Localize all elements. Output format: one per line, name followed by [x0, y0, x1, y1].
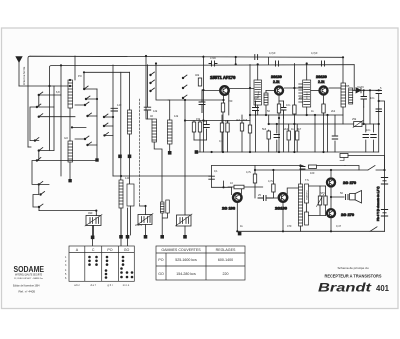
resistor bias out [324, 196, 327, 205]
svg-text:GO: GO [64, 136, 68, 140]
capacitor C-rail 4700 on rail2 [209, 61, 217, 66]
variable capacitor CV3 [176, 214, 193, 226]
svg-text:2G 108: 2G 108 [222, 206, 236, 211]
band switch bottom letters [74, 283, 130, 287]
wire T1 emitter down [223, 96, 225, 104]
wire mid verticals to ground rail [194, 65, 250, 153]
band switch headers [76, 248, 130, 252]
volume control resistor on rail [340, 154, 348, 161]
resistor mid1 [192, 122, 195, 132]
wire long horizontal y210.6 to tuning cap [39, 210, 96, 212]
wire bias stubs [320, 186, 326, 216]
junction dots detector line [363, 89, 380, 91]
wire outer left loop [28, 146, 31, 148]
terminal ground rail left [195, 150, 199, 154]
capacitor det2 [376, 109, 382, 112]
svg-text:10n: 10n [370, 96, 375, 100]
wire audio box left [211, 166, 213, 188]
switch contact arrows column B2 [84, 86, 108, 135]
resistor T1 bias [198, 78, 201, 86]
wire osc coil bottoms [154, 142, 170, 202]
wire IFT2 stubs [306, 64, 308, 116]
wire switch link [345, 166, 359, 171]
coil osc trimmer assembly [161, 200, 170, 213]
svg-text:d e f: d e f [90, 283, 95, 287]
wire 2G108 base drop [223, 181, 225, 187]
svg-text:2G 270: 2G 270 [343, 180, 357, 185]
resistor R-e Q2 [277, 104, 280, 113]
svg-text:490: 490 [88, 211, 93, 215]
transistor Q6 2G270 [327, 178, 335, 186]
svg-text:Edition de Novembre 1964: Edition de Novembre 1964 [13, 284, 40, 288]
svg-text:PO: PO [158, 258, 163, 262]
wire IFT3 top stub [342, 57, 344, 124]
capacitor neutralizing Q2 [276, 61, 279, 66]
switch on-off [368, 166, 377, 232]
capacitor series on rail1 [255, 55, 258, 60]
wire T1 emitter to rail [222, 112, 224, 152]
terminal coil ground [68, 179, 71, 182]
transistor Q4 2G108 [233, 193, 241, 201]
capacitor neutralizing Q3 [322, 61, 325, 66]
wire mid bottoms [194, 139, 207, 141]
wire IFT1 top stub [257, 64, 259, 80]
transistor Q2 2G139 [275, 87, 283, 95]
wire switch feed vertical x188 [184, 100, 186, 235]
wire detector out vertical [378, 94, 380, 153]
coil L1a ferrite antenna winding [68, 80, 73, 108]
svg-text:220: 220 [223, 272, 229, 276]
junction dots on rails [48, 55, 385, 233]
svg-text:10n: 10n [225, 119, 230, 123]
resistor audio1 [253, 174, 256, 183]
svg-text:PO: PO [78, 74, 82, 78]
coil Osc2 [168, 120, 173, 144]
wire T1 collector to IFT1 [229, 89, 254, 116]
wire elbow chains left [30, 95, 39, 211]
wire AGC long line y124 [269, 123, 379, 125]
svg-text:2G139: 2G139 [316, 75, 327, 79]
svg-text:12, RUE DUPHOT - PARIS 1er: 12, RUE DUPHOT - PARIS 1er [14, 277, 43, 280]
svg-text:4k7: 4k7 [297, 127, 302, 131]
switch contact column B2 [83, 88, 106, 137]
svg-text:m n o: m n o [123, 284, 130, 287]
wire output tap [331, 196, 344, 198]
wire Q5 collector to driver transformer [287, 188, 299, 194]
svg-text:155T1 AF170: 155T1 AF170 [210, 75, 236, 80]
junction audio base [222, 186, 224, 188]
svg-text:Schema de principe du: Schema de principe du [338, 266, 370, 270]
resistor mid5 [240, 123, 243, 131]
svg-text:PO: PO [107, 248, 112, 252]
wire Q3 collector [329, 87, 341, 89]
wire rail1 top supply [28, 56, 343, 147]
svg-text:401: 401 [376, 284, 390, 293]
wire AGC line [185, 120, 250, 122]
svg-text:2G109: 2G109 [275, 206, 288, 211]
wire trimmer drops [162, 213, 167, 235]
svg-text:10n: 10n [286, 103, 291, 107]
capacitor lattice mid [111, 108, 118, 111]
gammes table text [158, 248, 236, 276]
svg-text:25k: 25k [352, 117, 357, 121]
svg-text:TRANSFO: TRANSFO [306, 190, 309, 200]
terminal x120 [118, 155, 122, 159]
svg-text:455 kcs: 455 kcs [258, 91, 260, 98]
resistor R-e T1 [221, 103, 224, 112]
components decoupling top [300, 167, 305, 170]
svg-text:4700: 4700 [210, 56, 216, 60]
wire terminal stubs to table [93, 208, 128, 246]
svg-text:4,7pF: 4,7pF [269, 51, 276, 55]
junction output [330, 196, 332, 198]
svg-text:525-1600 kcs: 525-1600 kcs [175, 258, 197, 262]
svg-text:143: 143 [117, 103, 122, 107]
wire left lattice verticals [97, 65, 148, 184]
antenna [15, 56, 22, 86]
wire CV2 stems [140, 206, 146, 235]
wire Q2 collector [284, 87, 303, 89]
wire Q2 emitter [278, 96, 280, 104]
svg-text:470: 470 [287, 224, 292, 228]
wire T1 base feed vertical [202, 56, 204, 152]
wire osc coil feeds [146, 56, 170, 120]
resistor Q4 collector horizontal [234, 185, 244, 189]
switch contact column C [149, 74, 184, 99]
svg-text:GO: GO [124, 248, 130, 252]
diode detector [353, 88, 381, 93]
resistor on interstage line [293, 105, 296, 114]
svg-text:Brandt: Brandt [318, 281, 372, 295]
wire contact B stubs [75, 99, 97, 145]
svg-text:a b c: a b c [74, 283, 80, 287]
wire Q2 emitter to rail [278, 113, 280, 152]
svg-text:10n: 10n [366, 128, 371, 132]
title block [318, 266, 390, 295]
IF transformer IFT3 detector [341, 83, 353, 107]
wire osc feedback [168, 99, 224, 101]
svg-text:GO: GO [158, 272, 164, 276]
SODAME logo [13, 264, 44, 294]
terminal osc coil2 [168, 151, 172, 155]
wire rail link x235.7 [235, 57, 237, 64]
svg-text:6,8: 6,8 [56, 90, 60, 94]
terminal contact B ground [95, 158, 98, 161]
svg-text:2k2: 2k2 [284, 127, 289, 131]
wire rail2 right drop [353, 65, 355, 91]
resistor on x250 line [248, 125, 251, 133]
battery cell bottom [381, 210, 387, 217]
band switch dots [88, 256, 133, 279]
svg-text:Antenne ferrite: Antenne ferrite [22, 66, 26, 85]
resistor bias2 [287, 131, 290, 140]
capacitor bias1 [274, 135, 280, 138]
wire to Q5 base [273, 197, 277, 199]
transformer driver [299, 184, 309, 226]
wire rail2 second top [50, 65, 355, 150]
capacitor osc pad [144, 107, 151, 110]
terminal row above band table [91, 232, 242, 239]
svg-text:455: 455 [299, 96, 304, 100]
svg-text:40k: 40k [195, 73, 200, 77]
transistor Q7 2G270 [327, 209, 335, 217]
wire CV1 stems [94, 211, 97, 237]
wire Q2 base [266, 90, 274, 92]
wire Q6 emitter to Q7 collector [330, 188, 332, 208]
transistor T1 oscillator-converter 155T1 AF170 [220, 86, 228, 94]
svg-text:4,7k: 4,7k [268, 179, 274, 183]
svg-text:0,47: 0,47 [336, 224, 342, 228]
wire detector cap to agc wire [363, 107, 365, 124]
svg-text:T.S: T.S [305, 178, 309, 182]
svg-text:Pile 9 V (6 elements de 1,5 V): Pile 9 V (6 elements de 1,5 V) [376, 186, 380, 221]
wire IFT1 bottom stub [258, 91, 266, 116]
svg-text:455: 455 [345, 84, 350, 88]
svg-text:12k: 12k [153, 109, 158, 113]
wire left bus x54 [54, 65, 61, 176]
capacitor bias4 [332, 136, 338, 139]
battery cell top [381, 178, 387, 185]
svg-text:OA79: OA79 [357, 85, 364, 89]
svg-text:4,7pF: 4,7pF [311, 51, 318, 55]
wire bias network verticals [269, 115, 374, 152]
switch contact column B [84, 98, 89, 146]
wire rail1-rail2 link x268.5 [268, 57, 270, 64]
capacitor right2 [371, 135, 377, 138]
potentiometer volume on line [353, 121, 363, 128]
gammes table [156, 246, 245, 280]
svg-text:5k6: 5k6 [262, 127, 267, 131]
resistor audio2 [272, 184, 275, 192]
wire left bus x75 [74, 56, 76, 80]
wire Q3 emitter to rail [323, 113, 325, 152]
wire T1 base [203, 90, 219, 92]
wire Q5 emitter [282, 203, 284, 231]
wire detector out to agc [369, 90, 371, 124]
capacitor T1 base [199, 90, 205, 113]
svg-text:MATERIEL QUALITE SECURITE: MATERIEL QUALITE SECURITE [15, 274, 42, 277]
capacitor speaker coupling [346, 195, 349, 200]
svg-text:150: 150 [228, 99, 233, 103]
IF transformer IFT1 [254, 80, 268, 105]
resistor R-e Q3 [322, 104, 325, 113]
capacitor mid1 [204, 125, 210, 128]
wire right outer vertical [379, 101, 385, 231]
speaker [350, 191, 362, 204]
terminal L2 bottom [128, 155, 132, 159]
wire y115 connector [250, 114, 343, 116]
capacitor Q2 emitter bypass [281, 101, 286, 118]
svg-text:2.2k: 2.2k [318, 80, 325, 84]
thermistor bias [317, 195, 324, 207]
band switch row numbers [65, 256, 67, 280]
electrolytic audio input [209, 176, 215, 179]
transistor Q3 2G139 [320, 87, 328, 95]
transistor Q5 2G109 [279, 193, 287, 201]
wire antenna to coil [19, 85, 70, 87]
capacitor interstage audio [258, 196, 273, 201]
coil padder lower with core box [119, 180, 134, 208]
wire driver transformer feeds [301, 166, 326, 232]
wire padder stems [121, 206, 131, 235]
capacitor right1 [363, 135, 369, 138]
svg-text:2x270: 2x270 [135, 223, 143, 227]
wire lattice elbow y70.5 [84, 72, 130, 89]
svg-text:4k7: 4k7 [236, 118, 241, 122]
switch contact arrows column A [35, 92, 45, 207]
band switch table [69, 246, 134, 281]
wire Q4 base elbow [231, 187, 233, 194]
IF transformer IFT2 [299, 80, 311, 107]
switch contact column A [34, 94, 42, 208]
wire ground rail y152 [196, 151, 378, 153]
svg-text:C: C [92, 248, 95, 252]
svg-text:SODAME: SODAME [14, 264, 45, 274]
svg-text:100: 100 [310, 171, 315, 175]
coil L1b ferrite antenna winding 2 [68, 141, 73, 162]
svg-text:1k5: 1k5 [243, 118, 248, 122]
resistor mid3 [220, 123, 223, 132]
svg-text:0,1: 0,1 [214, 169, 218, 173]
wire Q7 emitter [330, 219, 332, 232]
svg-text:g h i: g h i [108, 283, 113, 287]
svg-text:REGLAGES: REGLAGES [216, 248, 236, 252]
wire audio2 stubs [272, 170, 274, 198]
svg-text:2.2k: 2.2k [273, 80, 280, 84]
variable capacitor CV1 [85, 215, 102, 227]
resistor bias1 [267, 131, 270, 139]
electrolytic mid [253, 101, 259, 116]
svg-text:4,7k: 4,7k [246, 170, 252, 174]
wire contact B2 links [72, 89, 113, 135]
wire audio box top [212, 165, 345, 167]
wire lattice horizontals [35, 95, 97, 184]
electrolytic detector [376, 91, 382, 94]
wire audio1 stubs [254, 166, 256, 199]
wire long horizontal y176 [113, 175, 212, 177]
svg-text:600-1400: 600-1400 [218, 258, 233, 262]
svg-text:455 kcs: 455 kcs [307, 92, 309, 99]
svg-text:NTC: NTC [320, 191, 325, 195]
wire rail to audio right link [348, 156, 385, 171]
wire coil L2 stems [129, 72, 131, 154]
wire Q6 collector up [330, 170, 332, 177]
svg-text:2k2: 2k2 [331, 109, 336, 113]
svg-text:15k: 15k [196, 117, 201, 121]
wire Q4 collector up and right [228, 187, 263, 194]
resistor mid4 [226, 123, 229, 132]
wire Q4 emitter down [236, 203, 238, 231]
resistor mid2 [198, 122, 201, 132]
wire audio bottom rail [238, 230, 385, 232]
svg-text:2G139: 2G139 [271, 75, 282, 79]
svg-text:GAMMES COUVERTES: GAMMES COUVERTES [161, 248, 201, 252]
coil Osc1 [152, 119, 157, 142]
tiny value labels sprinkled [56, 51, 382, 228]
wire interstage vertical [293, 64, 295, 153]
wire coil L1b to ground square [69, 162, 71, 179]
svg-text:12k: 12k [174, 114, 179, 118]
svg-text:Ref. n° 4405: Ref. n° 4405 [19, 290, 36, 294]
wire audio box top2 [255, 169, 385, 171]
svg-text:143: 143 [125, 176, 130, 180]
svg-text:154-280 kcs: 154-280 kcs [176, 272, 196, 276]
wire coil L1 stem [69, 108, 71, 141]
switch contact arrows column C [151, 72, 188, 98]
wire dashed gang link [139, 99, 141, 206]
wire Q3 emitter [323, 96, 325, 104]
variable capacitor CV2 [137, 214, 153, 226]
svg-text:0,1: 0,1 [219, 139, 223, 143]
wire Q3 base [311, 90, 318, 92]
coil L2 oscillator padding [128, 110, 132, 134]
switch contact arrows column B [85, 96, 92, 145]
capacitor detector filter [361, 90, 367, 107]
resistor bias3 [296, 131, 299, 140]
wire audio input [212, 186, 232, 188]
svg-text:RECEPTEUR A TRANSISTORS: RECEPTEUR A TRANSISTORS [325, 274, 382, 279]
svg-text:2G 270: 2G 270 [341, 212, 355, 217]
